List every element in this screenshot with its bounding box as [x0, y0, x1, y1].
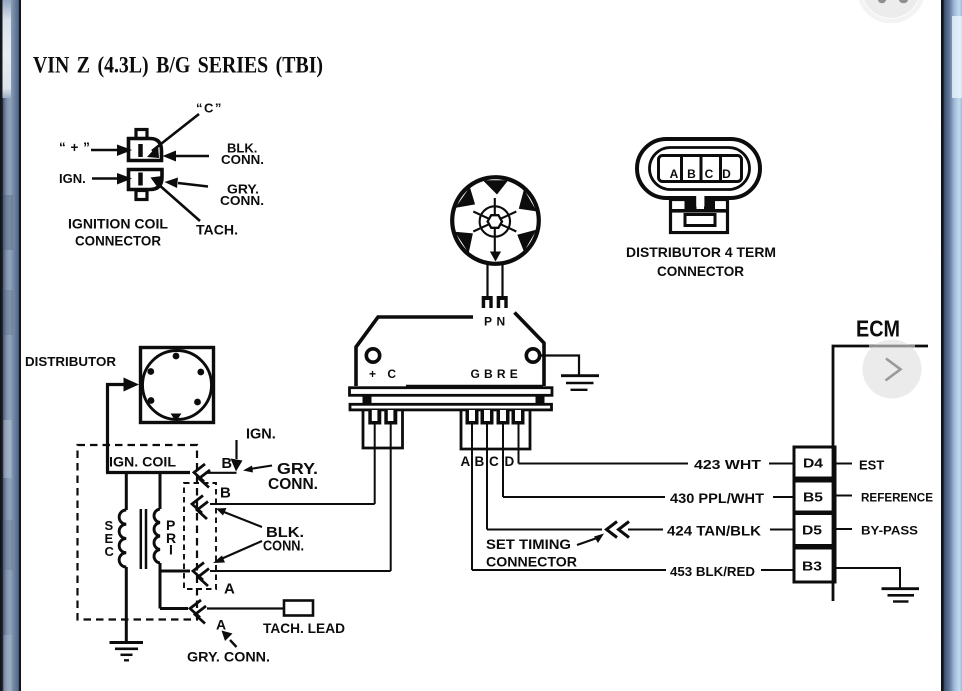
svg-text:D5: D5 — [802, 523, 822, 538]
svg-text:B5: B5 — [803, 490, 823, 505]
svg-text:TACH.: TACH. — [196, 223, 238, 238]
svg-text:A: A — [224, 581, 235, 598]
svg-text:TACH. LEAD: TACH. LEAD — [263, 621, 345, 636]
svg-text:C: C — [705, 167, 714, 181]
svg-text:GBRE: GBRE — [471, 367, 522, 381]
svg-text:VIN Z (4.3L) B/G SERIES (TBI): VIN Z (4.3L) B/G SERIES (TBI) — [33, 53, 323, 79]
svg-text:453 BLK/RED: 453 BLK/RED — [670, 564, 755, 579]
svg-text:A: A — [461, 454, 471, 469]
svg-text:GRY. CONN.: GRY. CONN. — [187, 650, 270, 665]
svg-text:D: D — [505, 454, 515, 469]
svg-text:C: C — [489, 454, 499, 469]
svg-text:IGN.: IGN. — [246, 427, 276, 443]
svg-text:SET TIMING: SET TIMING — [486, 536, 571, 552]
svg-text:DISTRIBUTOR: DISTRIBUTOR — [25, 354, 117, 369]
svg-text:A: A — [670, 167, 679, 181]
svg-text:D: D — [722, 167, 731, 181]
svg-text:D4: D4 — [803, 456, 824, 471]
svg-text:B: B — [222, 456, 232, 472]
svg-text:B: B — [687, 167, 696, 181]
svg-text:“C”: “C” — [196, 101, 223, 116]
svg-text:+ C: + C — [369, 367, 400, 381]
svg-text:CONN.: CONN. — [268, 476, 318, 493]
svg-text:BY-PASS: BY-PASS — [861, 524, 918, 538]
svg-text:EST: EST — [859, 458, 884, 473]
svg-text:424 TAN/BLK: 424 TAN/BLK — [667, 524, 761, 539]
svg-text:423 WHT: 423 WHT — [694, 457, 761, 472]
svg-text:I: I — [169, 542, 173, 558]
svg-text:“ + ”: “ + ” — [59, 140, 90, 155]
svg-text:IGN. COIL: IGN. COIL — [109, 454, 176, 470]
svg-text:CONN.: CONN. — [220, 193, 264, 208]
svg-text:CONNECTOR: CONNECTOR — [486, 554, 577, 570]
svg-text:IGN.: IGN. — [59, 171, 86, 186]
svg-text:430 PPL/WHT: 430 PPL/WHT — [670, 491, 765, 506]
svg-text:CONN.: CONN. — [263, 538, 304, 555]
svg-text:CONN.: CONN. — [221, 152, 264, 167]
svg-text:B3: B3 — [802, 559, 822, 574]
svg-text:B: B — [475, 454, 485, 469]
svg-text:ECM: ECM — [856, 316, 900, 342]
svg-text:A: A — [216, 617, 226, 633]
svg-text:CONNECTOR: CONNECTOR — [75, 233, 161, 249]
svg-text:C: C — [105, 544, 115, 559]
svg-text:PN: PN — [484, 315, 510, 329]
svg-text:B: B — [220, 485, 231, 502]
svg-text:CONNECTOR: CONNECTOR — [657, 263, 744, 279]
svg-text:IGNITION COIL: IGNITION COIL — [68, 216, 168, 232]
svg-text:REFERENCE: REFERENCE — [861, 493, 933, 505]
svg-text:DISTRIBUTOR 4 TERM: DISTRIBUTOR 4 TERM — [626, 244, 776, 260]
